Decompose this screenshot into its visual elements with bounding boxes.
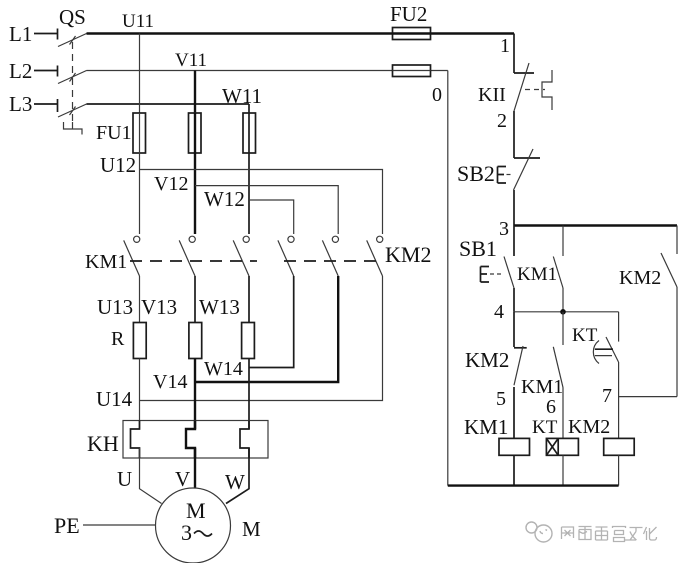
coil KT with X	[546, 438, 578, 455]
svg-text:5: 5	[496, 388, 506, 410]
wire L3 lead	[34, 103, 58, 105]
svg-text:KM2: KM2	[385, 242, 431, 267]
wire U below KM1	[139, 276, 141, 323]
svg-text:R: R	[111, 328, 125, 350]
svg-text:3: 3	[499, 218, 509, 240]
wire U below R	[139, 359, 141, 401]
svg-text:KM1: KM1	[464, 415, 508, 439]
svg-text:L2: L2	[9, 59, 32, 83]
svg-text:0: 0	[432, 84, 442, 106]
wire rail 1 down	[513, 34, 515, 74]
wire U14 to KM2 pole C bottom	[140, 276, 383, 401]
contactor KM1 pole V	[179, 236, 195, 276]
svg-text:2: 2	[497, 110, 507, 132]
svg-text:V: V	[175, 467, 190, 491]
svg-text:L3: L3	[9, 92, 32, 116]
wire V into KH	[194, 382, 196, 429]
svg-text:3: 3	[181, 520, 192, 545]
contactor KM2 pole C	[367, 236, 383, 276]
svg-text:KT: KT	[572, 325, 598, 346]
contactor KM1 pole W	[233, 236, 249, 276]
wire L2 bus	[87, 70, 393, 72]
svg-text:W14: W14	[204, 358, 243, 380]
svg-text:PE: PE	[54, 513, 80, 538]
resistor R phase U	[133, 323, 146, 359]
svg-text:U: U	[117, 467, 132, 491]
svg-text:KM1: KM1	[517, 264, 557, 285]
pushbutton SB2 (NC stop)	[498, 149, 541, 190]
coil KM1	[499, 438, 530, 455]
resistor R phase V	[189, 323, 202, 359]
wire bottom rail	[448, 484, 619, 486]
wire rail to node 3	[513, 190, 515, 226]
wire V out of KH	[194, 448, 196, 488]
svg-text:4: 4	[494, 301, 504, 323]
switch QS pole 2	[58, 66, 87, 84]
wire node 3 bus	[514, 224, 677, 226]
wire W14 to KM2 pole A bottom	[249, 276, 294, 368]
wire V column to KM1	[194, 153, 196, 234]
svg-text:W11: W11	[222, 84, 262, 108]
svg-text:L1: L1	[9, 22, 32, 46]
svg-text:FU1: FU1	[96, 122, 132, 144]
svg-text:SB2: SB2	[457, 161, 495, 186]
contact KM2 NC interlock	[514, 312, 527, 438]
wire V below KM1	[194, 276, 196, 323]
svg-text:V14: V14	[153, 371, 187, 393]
svg-text:7: 7	[602, 385, 612, 407]
wire U out of KH	[140, 448, 162, 504]
resistor R phase W	[242, 323, 255, 359]
fuse FU2-2	[393, 65, 431, 77]
wire W out of KH	[226, 448, 249, 504]
svg-text:V12: V12	[154, 173, 188, 195]
KH heater V	[186, 421, 195, 459]
wire L1 lead	[34, 33, 58, 35]
wire W below KM1	[248, 276, 250, 323]
wire V14 to KM2 pole B bottom	[195, 276, 338, 382]
KII dashed link	[525, 89, 545, 91]
contact KM1 self-hold	[553, 226, 563, 312]
contact KT delayed	[593, 312, 618, 439]
wire W column upper	[248, 104, 250, 113]
switch QS pole 1	[58, 29, 87, 47]
fuse FU1-V	[189, 113, 202, 153]
svg-text:KM2: KM2	[619, 267, 661, 289]
svg-text:6: 6	[546, 396, 556, 418]
svg-text:W13: W13	[199, 295, 240, 319]
svg-text:KM1: KM1	[521, 376, 563, 398]
fuse FU1-U	[133, 113, 146, 153]
pushbutton SB1 (NO start)	[481, 226, 515, 312]
svg-text:QS: QS	[59, 5, 86, 29]
svg-text:FU2: FU2	[390, 2, 427, 26]
contactor KM2 pole A	[278, 236, 294, 276]
coil KM2	[604, 438, 635, 455]
switch QS pole 3	[58, 99, 87, 117]
wire L2 bus after fuse	[431, 70, 448, 72]
wire U column upper	[139, 34, 141, 114]
contactor KM1 pole U	[124, 236, 140, 276]
wire W column to KM1	[248, 153, 250, 234]
KH heater U	[131, 421, 140, 459]
contact KM2 aux	[661, 226, 677, 397]
contactor KM2 pole B	[322, 236, 338, 276]
svg-text:KM1: KM1	[85, 251, 127, 273]
svg-text:V11: V11	[175, 50, 207, 71]
contact KII (KH NC)	[514, 63, 534, 111]
wire W12 to KM2 pole A	[249, 200, 294, 234]
KH heater W	[240, 421, 249, 459]
wire KT coil to rail	[562, 455, 564, 485]
watermark logo circles	[526, 522, 552, 542]
wire L1 bus	[87, 32, 393, 34]
svg-text:1: 1	[500, 35, 510, 57]
wire U into KH	[139, 401, 141, 430]
svg-text:V13: V13	[141, 295, 177, 319]
svg-text:KII: KII	[478, 84, 506, 106]
contact KM1 aux to KT coil	[553, 312, 563, 439]
svg-text:W12: W12	[204, 187, 245, 211]
KM1 linkage dashed	[130, 260, 257, 262]
wire node 4 bus	[514, 311, 619, 313]
wire PE lead	[83, 524, 156, 526]
svg-text:U12: U12	[100, 153, 136, 177]
wire KM2 coil to rail	[618, 455, 620, 485]
wire 0 rail	[447, 71, 449, 486]
wire L1 bus after fuse	[431, 32, 515, 34]
QS linkage dashed	[72, 42, 74, 121]
node 4 junction dot	[560, 309, 566, 315]
wire KM1 coil to rail	[513, 455, 515, 485]
svg-text:M: M	[242, 517, 261, 541]
wire L3 bus	[87, 103, 250, 105]
KII trip element	[542, 70, 552, 110]
KM2 linkage dashed	[284, 260, 381, 262]
svg-text:KH: KH	[87, 431, 119, 456]
wire L2 lead	[34, 70, 58, 72]
watermark text	[562, 527, 657, 542]
motor M 3~	[156, 488, 231, 563]
svg-text:W: W	[225, 470, 245, 494]
svg-text:U14: U14	[96, 387, 133, 411]
wire U column to KM1	[139, 153, 141, 234]
svg-text:SB1: SB1	[459, 236, 497, 261]
svg-text:KM2: KM2	[465, 348, 509, 372]
wire U12 to KM2 pole C	[140, 170, 383, 235]
wire V12 to KM2 pole B	[195, 186, 338, 234]
QS handle	[64, 122, 83, 135]
wire rail 2 down	[513, 111, 515, 158]
svg-text:KT: KT	[532, 417, 558, 438]
fuse FU1-W	[243, 113, 256, 153]
wire V column upper	[194, 71, 196, 114]
svg-text:U13: U13	[97, 295, 133, 319]
wire W below R	[248, 359, 250, 368]
thermal relay KH box	[123, 421, 268, 459]
svg-text:KM2: KM2	[568, 416, 610, 438]
svg-text:U11: U11	[122, 11, 154, 32]
fuse FU2-1	[393, 28, 431, 40]
wire node 7	[619, 396, 677, 398]
wire W into KH	[248, 368, 250, 430]
wire V below R	[194, 359, 196, 383]
